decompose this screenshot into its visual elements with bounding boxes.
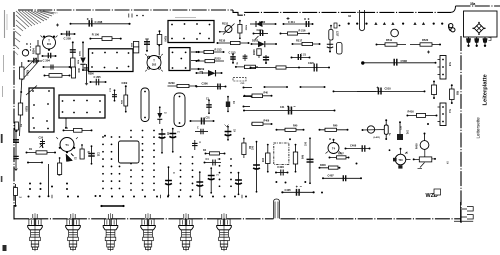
svg-text:R148: R148: [164, 36, 167, 42]
resistor R511: [376, 44, 406, 46]
capacitor C219: [329, 41, 331, 53]
capacitor C214: [265, 55, 267, 63]
solder pads misc lower-left: [29, 183, 31, 185]
electrolytic C504: [168, 167, 170, 196]
resistor R507: [450, 89, 455, 100]
svg-text:C309: C309: [122, 82, 128, 85]
svg-text:L217: L217: [336, 31, 338, 37]
svg-text:(L411): (L411): [374, 136, 381, 139]
resistor R407: [329, 157, 349, 159]
fiducial row dots and triangles: [348, 23, 350, 25]
resistor R308: [125, 86, 127, 112]
capacitor C400: [276, 172, 289, 174]
left margin streak a: [4, 10, 6, 38]
module B stub 1: [191, 51, 200, 53]
svg-text:C 21: C 21: [301, 52, 307, 56]
capacitor C211: [283, 23, 313, 25]
svg-text:C 205: C 205: [64, 37, 72, 41]
resistor R170: [250, 67, 300, 69]
resistor R3: [58, 163, 62, 175]
svg-text:R209: R209: [169, 82, 176, 85]
capacitor C705: [114, 90, 116, 101]
svg-text:R406: R406: [320, 164, 326, 167]
left margin streak c: [2, 86, 4, 97]
capacitor C226: [314, 64, 317, 72]
svg-text:34: 34: [348, 14, 352, 18]
wire chain: [21, 79, 22, 103]
marker cm: [334, 23, 337, 28]
resistor R413: [319, 129, 348, 131]
resistor R406a: [251, 123, 272, 125]
wire stub r1: [243, 87, 252, 89]
wire board outline bottom edge right part: [281, 218, 462, 220]
left margin streak b: [3, 55, 5, 72]
wire board outline upper-right edge: [456, 5, 500, 7]
board slot cutout: [360, 10, 365, 31]
resistor R12: [15, 184, 17, 206]
svg-text:R40: R40: [333, 125, 338, 128]
resistor R405: [244, 95, 272, 97]
resistor R217: [292, 43, 320, 45]
wire board outline top-right corner: [451, 6, 456, 12]
mounting hole: [22, 50, 28, 56]
diode D301 lead: [82, 42, 84, 57]
svg-text:R 216: R 216: [299, 29, 306, 33]
svg-text:R40: R40: [264, 91, 269, 94]
resistor R209: [168, 85, 198, 87]
resistor R106: [90, 38, 121, 40]
svg-text:35a: 35a: [470, 2, 476, 6]
wire vertical long: [48, 164, 50, 197]
svg-text:D: D: [26, 42, 28, 46]
svg-text:C226: C226: [308, 62, 314, 65]
wire mid a: [264, 86, 288, 88]
capacitor C307 vertical chain: [72, 42, 74, 58]
svg-text:T4: T4: [332, 147, 336, 151]
capacitor C422: [204, 162, 221, 164]
resistor R148: [157, 35, 162, 45]
capacitor C303: [28, 60, 42, 62]
trimmer M02: [133, 42, 138, 47]
connector plug Bu3: [103, 213, 118, 251]
svg-text:C12: C12: [96, 152, 98, 157]
svg-text:R 106: R 106: [92, 33, 100, 37]
diode D1: [66, 154, 73, 162]
svg-text:D203: D203: [252, 39, 259, 43]
resistor R107: [44, 75, 70, 77]
resistor R304: [37, 40, 39, 62]
coil body L301: [141, 88, 149, 122]
resistor R213: [196, 51, 224, 53]
trimmer R408 knob: [420, 141, 429, 150]
solder pad grid D: [219, 159, 221, 190]
tuning coil Tu5: [440, 56, 446, 80]
svg-text:C41: C41: [280, 106, 285, 109]
svg-text:R306: R306: [88, 73, 94, 76]
diode D303: [227, 97, 229, 102]
scan streak: [175, 17, 196, 19]
resistor R212: [238, 25, 242, 34]
svg-text:R40: R40: [301, 155, 304, 160]
svg-text:R407: R407: [338, 153, 344, 156]
capacitor C410: [244, 110, 336, 112]
svg-text:C41: C41: [406, 130, 409, 135]
svg-text:Leiterplatte: Leiterplatte: [483, 73, 489, 105]
resistor R416: [407, 115, 437, 117]
transistor T1: [60, 138, 74, 152]
svg-text:R212: R212: [244, 25, 246, 31]
electrolytic C507: [238, 173, 240, 195]
svg-text:C400: C400: [277, 165, 284, 169]
svg-text:C406: C406: [350, 144, 357, 148]
svg-text:R304: R304: [33, 48, 36, 54]
capacitor C205b: [90, 81, 106, 83]
svg-text:C407: C407: [328, 173, 335, 177]
svg-text:R30: R30: [77, 69, 79, 74]
shield can U501 outline: [464, 11, 498, 37]
resistor R422: [242, 143, 246, 155]
trimmer R408 body: [419, 157, 432, 162]
wire mid b: [300, 86, 325, 88]
svg-text:R511: R511: [386, 38, 393, 42]
svg-text:C405: C405: [285, 188, 292, 192]
electrolytic C401: [256, 142, 258, 193]
module B stub 2: [191, 60, 200, 62]
can pin 1: [468, 37, 470, 46]
relay outline: [119, 141, 140, 163]
svg-text:302: 302: [152, 62, 157, 66]
svg-text:R104: R104: [26, 70, 29, 76]
edge contact fingers bottom-right: [454, 202, 473, 222]
resistor R104: [20, 67, 25, 79]
resistor R412: [276, 129, 304, 131]
svg-text:C 304: C 304: [43, 59, 51, 63]
capacitor C12: [91, 146, 93, 164]
svg-text:C510: C510: [385, 87, 392, 91]
svg-text:C30: C30: [39, 137, 44, 140]
capacitor C306a: [146, 39, 148, 52]
can pin 2: [476, 37, 478, 46]
svg-text:C306: C306: [202, 81, 209, 85]
left margin scan mark 3: [3, 245, 7, 251]
capacitor C508: [363, 62, 437, 64]
svg-text:C40: C40: [252, 145, 255, 150]
wire stub r3: [243, 106, 250, 108]
resistor R108: [18, 103, 22, 115]
junction cross mid: [287, 17, 290, 20]
mounting hole right: [391, 29, 399, 37]
left chain part: [15, 131, 17, 170]
capacitor C402: [309, 138, 311, 184]
module outline B with pads: [169, 48, 190, 71]
electrolytic C502: [172, 129, 174, 153]
connector plug Bu5: [179, 213, 194, 251]
svg-text:R406: R406: [264, 119, 270, 122]
capacitor C503: [194, 140, 196, 150]
connector plug Bu6: [217, 213, 232, 251]
component fuse holder: [449, 24, 453, 28]
svg-text:C 211: C 211: [288, 20, 295, 24]
svg-text:T1: T1: [65, 143, 69, 147]
diode D301: [80, 58, 85, 64]
capacitor C310: [208, 100, 210, 114]
resistor R218: [257, 49, 261, 56]
svg-text:D301: D301: [80, 50, 82, 56]
module outline D with pads: [29, 88, 54, 132]
diode D302: [159, 107, 161, 113]
corner hatching smudge: [15, 11, 56, 49]
svg-text:Leiterseite: Leiterseite: [476, 117, 481, 139]
svg-text:D209: D209: [198, 67, 205, 71]
capacitor C204: [43, 66, 70, 68]
wire w dots: [28, 162, 43, 164]
svg-text:301: 301: [47, 42, 52, 46]
solder pad grid C: [180, 157, 182, 192]
wire board outline right edge: [460, 36, 462, 223]
resistor R216: [280, 33, 310, 35]
connector plug Bu2: [66, 213, 81, 251]
capacitor C509: [195, 131, 208, 133]
diode D203: [251, 43, 258, 45]
svg-text:R50: R50: [456, 91, 458, 96]
svg-text:Tu1: Tu1: [448, 109, 451, 114]
transistor T4: [328, 143, 339, 154]
capacitor C510: [378, 88, 381, 95]
svg-text:R40: R40: [262, 157, 265, 162]
coil L501 crossed diamond: [474, 24, 484, 34]
trimmer R509: [432, 85, 437, 95]
solder pad grid B: [130, 131, 132, 193]
module outline C with pads: [168, 21, 214, 43]
resistor R303: [71, 58, 75, 68]
svg-text:R217: R217: [296, 38, 303, 42]
coil body L302: [174, 93, 185, 127]
coil L217: [329, 30, 333, 41]
electrolytic C501: [161, 130, 163, 154]
svg-text:R416: R416: [408, 110, 415, 114]
capacitor C412: [399, 122, 401, 134]
coil L218: [337, 43, 343, 55]
connector plug Bu1: [28, 213, 43, 251]
resistor R3a: [80, 149, 84, 159]
reference box dashed: [233, 78, 246, 81]
resistor R207: [236, 66, 259, 68]
module outline E with pads: [59, 95, 105, 118]
svg-text:C 205: C 205: [94, 75, 102, 79]
wire board outline left edge: [13, 12, 15, 220]
capacitor C217: [244, 54, 246, 61]
module C400 dashed outline: [274, 143, 289, 164]
svg-text:R40: R40: [293, 125, 298, 128]
svg-text:R 213: R 213: [215, 48, 222, 52]
left margin scan mark 1: [1, 134, 3, 143]
svg-text:R215: R215: [215, 56, 222, 60]
solder pads near C405: [289, 138, 291, 140]
connector plug Bu4: [141, 213, 156, 251]
mark small dash: [447, 162, 449, 164]
resistor R1: [26, 152, 56, 154]
transistor T301: [43, 36, 56, 49]
tuning coil Tu1: [440, 103, 446, 126]
electrolytic C505: [199, 172, 201, 196]
svg-text:T40: T40: [398, 159, 403, 162]
capacitor C304: [42, 55, 56, 57]
board edge keying tab: [274, 199, 280, 219]
left margin streak d: [6, 14, 8, 30]
jumper wire heavy: [101, 205, 124, 207]
wire board outline top edge step: [233, 10, 451, 15]
svg-text:R520: R520: [422, 38, 429, 42]
capacitor C208: [70, 23, 130, 25]
capacitor C205: [61, 33, 75, 35]
solder pad row bottom: [28, 196, 30, 198]
can pin 3: [484, 37, 486, 46]
svg-text:R108: R108: [25, 106, 27, 112]
svg-text:R210: R210: [219, 38, 226, 42]
resistor R215: [196, 60, 224, 62]
svg-text:C40: C40: [305, 141, 308, 146]
module outline A with pads: [89, 49, 134, 72]
wire board outline bottom edge: [14, 218, 274, 220]
solder pad row mid: [285, 182, 287, 184]
diode D202: [250, 23, 258, 25]
resistor R520: [410, 44, 441, 46]
svg-text:C508: C508: [401, 59, 408, 63]
resistor R421: [205, 153, 225, 155]
resistor R109: [15, 122, 19, 130]
svg-text:R218: R218: [254, 49, 256, 55]
transistor T302: [147, 56, 161, 70]
wire stub r2: [243, 96, 252, 98]
dot pair top-left module A: [136, 15, 138, 17]
junction cross: [56, 24, 59, 27]
coil L411: [362, 129, 384, 131]
module B stub 3: [191, 68, 200, 70]
left margin scan mark 2: [1, 176, 3, 182]
svg-text:C51: C51: [206, 118, 211, 120]
electrolytic C421: [227, 127, 229, 141]
resistor R210: [217, 42, 249, 44]
capacitor C311: [190, 120, 214, 122]
resistor R2: [63, 129, 92, 131]
wire diagonal to lower left: [20, 58, 38, 80]
svg-text:Tu5: Tu5: [448, 62, 451, 67]
wire chain lower: [19, 115, 22, 136]
svg-text:R211: R211: [222, 22, 229, 26]
can pin aux mark: [489, 38, 492, 41]
wire long to C510: [333, 90, 376, 92]
wire board outline top edge: [18, 9, 233, 11]
svg-text:R408: R408: [416, 143, 419, 149]
electrolytic C506: [210, 168, 212, 193]
svg-text:C 208: C 208: [95, 20, 103, 24]
resistor R401: [267, 144, 269, 172]
capacitor C305: [86, 64, 88, 84]
transistor T401: [395, 154, 406, 165]
resistor R301: [72, 67, 76, 78]
wire module E down lead: [65, 118, 67, 128]
resistor R402: [295, 144, 297, 172]
solder pad grid A: [102, 137, 104, 190]
